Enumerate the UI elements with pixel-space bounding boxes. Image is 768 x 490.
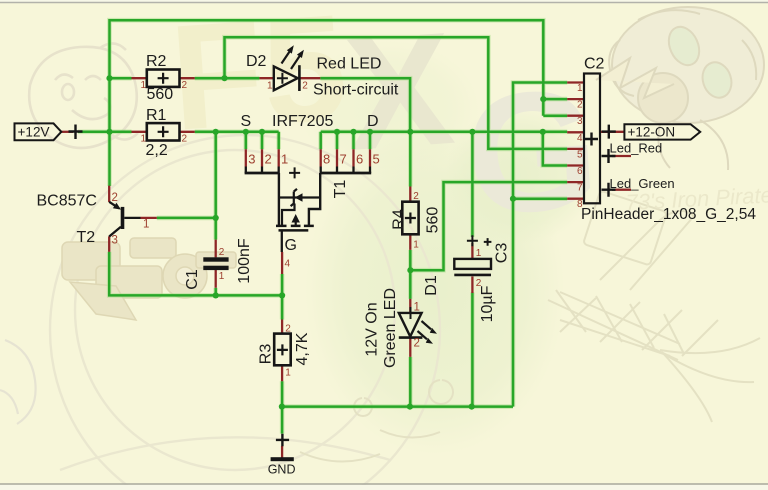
- wire ground bus: [282, 405, 513, 408]
- svg-text:4: 4: [577, 133, 583, 144]
- svg-text:2: 2: [413, 191, 419, 202]
- svg-text:2,2: 2,2: [146, 142, 168, 159]
- pin R3 stubs: [281, 320, 283, 382]
- svg-text:D: D: [367, 113, 379, 130]
- pin Led_Red stub: [612, 155, 631, 157]
- node R4 top junction: [407, 129, 413, 135]
- label Led_Green anchor cross: [602, 183, 616, 197]
- svg-text:GND: GND: [268, 463, 296, 477]
- wire R4 top to D rail: [409, 132, 412, 187]
- svg-text:D1: D1: [423, 275, 440, 296]
- svg-text:100nF: 100nF: [236, 238, 253, 284]
- node C2 pin6 junction: [540, 129, 546, 135]
- wire D2 cathode to D rail: [320, 78, 410, 132]
- LED D2: [274, 45, 304, 91]
- wire R2 row left: [110, 77, 132, 80]
- connector C2 pin header: [584, 74, 600, 204]
- node T1 pin7 junction: [334, 129, 340, 135]
- svg-text:2: 2: [182, 80, 188, 91]
- svg-text:6: 6: [356, 152, 363, 167]
- svg-text:C3: C3: [493, 243, 510, 264]
- capacitor C1: [203, 257, 228, 270]
- svg-text:1: 1: [140, 134, 146, 145]
- node T1 pin3 junction: [243, 129, 249, 135]
- pin R1 stubs: [132, 131, 195, 133]
- node T1 pin6 junction: [350, 129, 356, 135]
- svg-text:1: 1: [476, 248, 482, 259]
- label Led_Red anchor cross: [602, 149, 616, 163]
- node D1 bottom junction: [407, 404, 413, 410]
- top-right monkey face: [596, 7, 764, 170]
- LED D1: [399, 307, 437, 344]
- svg-text:12V On: 12V On: [364, 302, 381, 356]
- wire gate node to R3: [281, 274, 284, 320]
- svg-text:2: 2: [112, 192, 118, 204]
- svg-text:7: 7: [577, 183, 583, 194]
- wire gate row horizontal: [109, 252, 282, 296]
- pin T1 source stubs: [246, 149, 279, 166]
- svg-text:Red LED: Red LED: [317, 56, 382, 73]
- pin R2 stubs: [132, 77, 195, 79]
- svg-text:1: 1: [219, 271, 225, 282]
- svg-text:BC857C: BC857C: [37, 193, 97, 210]
- wire D1 cathode to bus: [409, 357, 412, 407]
- node R3 top junction: [279, 292, 285, 298]
- bottom-right airship sketch: [300, 191, 760, 462]
- pin +12V flag stub: [61, 131, 73, 133]
- node C2 pin8 junction: [510, 196, 516, 202]
- svg-text:S: S: [241, 113, 252, 130]
- svg-text:4,7K: 4,7K: [294, 332, 311, 365]
- pin C3 stubs: [471, 243, 473, 293]
- svg-text:5: 5: [373, 152, 380, 167]
- pin Led_Green stub: [612, 189, 631, 191]
- node R2 right junction: [221, 75, 227, 81]
- svg-text:560: 560: [147, 86, 174, 103]
- wire pin8 branch: [513, 197, 567, 200]
- pin C1 stubs: [215, 240, 217, 288]
- pin +12-ON flag stub: [600, 131, 625, 133]
- node C3 top junction: [469, 129, 475, 135]
- svg-text:4: 4: [285, 259, 291, 270]
- svg-text:2: 2: [577, 100, 583, 111]
- svg-text:10µF: 10µF: [479, 285, 496, 322]
- pin T2 base stub: [141, 217, 157, 219]
- svg-text:2: 2: [285, 324, 291, 335]
- wire T2 base to C1 column: [157, 217, 216, 220]
- pin R4 stubs: [409, 187, 411, 250]
- svg-text:7: 7: [340, 152, 347, 167]
- resistor R1: [147, 123, 180, 140]
- node T1 pin5 junction: [367, 129, 373, 135]
- pin T2 collector stub: [108, 236, 110, 252]
- svg-text:2: 2: [476, 278, 482, 289]
- wire top horizontal +12V net: [110, 20, 544, 186]
- wire pin3 branch: [543, 114, 567, 117]
- pin T1 drain stubs: [321, 149, 370, 166]
- svg-text:2: 2: [182, 134, 188, 145]
- top-left sketch faces: [29, 43, 138, 148]
- svg-text:1: 1: [267, 81, 273, 92]
- svg-text:1: 1: [577, 83, 583, 94]
- svg-text:PinHeader_1x08_G_2,54: PinHeader_1x08_G_2,54: [581, 206, 756, 223]
- wire C1 bottom: [214, 288, 217, 296]
- node C3 bottom junction: [469, 404, 475, 410]
- wire R2 node to C2 pin5: [225, 37, 568, 149]
- wire D rail T1 pin8 to C2 pin4: [321, 131, 568, 134]
- pin GND stub: [281, 446, 283, 458]
- svg-text:1: 1: [143, 219, 149, 231]
- +12V input flag: [15, 123, 62, 140]
- svg-text:2: 2: [265, 152, 272, 167]
- wire C3 top to D rail: [471, 132, 474, 237]
- svg-text:+12-ON: +12-ON: [628, 125, 676, 140]
- svg-text:T2: T2: [77, 229, 96, 246]
- svg-text:T1: T1: [332, 180, 349, 199]
- wire T1 drain pin stubs: [321, 132, 370, 149]
- svg-text:+12V: +12V: [18, 125, 50, 140]
- node +12V rail junction: [106, 129, 112, 135]
- svg-text:2: 2: [302, 81, 308, 92]
- big ghost letters: [166, 0, 605, 252]
- node +12V anchor cross: [69, 125, 83, 140]
- resistor R2: [147, 70, 180, 87]
- svg-text:6: 6: [577, 166, 583, 177]
- resistor R4: [402, 202, 418, 235]
- svg-text:1: 1: [281, 152, 288, 167]
- node R4 D1 junction: [407, 267, 413, 273]
- svg-text:R1: R1: [146, 107, 167, 124]
- wire S rail R1 to T1 pin1: [195, 131, 279, 134]
- svg-text:R2: R2: [146, 53, 167, 70]
- svg-text:R3: R3: [258, 344, 275, 365]
- svg-text:R4: R4: [391, 209, 408, 230]
- wire C1 column top: [214, 132, 217, 240]
- resistor R3: [274, 334, 291, 366]
- wire R3 bottom to bus: [281, 381, 284, 433]
- svg-text:8: 8: [577, 199, 583, 210]
- svg-text:8: 8: [323, 152, 330, 167]
- svg-text:Led_Red: Led_Red: [610, 141, 663, 156]
- node C1 bottom junction: [213, 292, 219, 298]
- wire T1 source pin stubs: [246, 132, 279, 149]
- node R1 right junction: [213, 129, 219, 135]
- wire R4 bottom to D1: [409, 250, 412, 299]
- node T2 base junction: [213, 215, 219, 221]
- wire pin6 branch from D rail: [543, 132, 567, 166]
- svg-text:560: 560: [425, 207, 442, 234]
- svg-text:3: 3: [577, 116, 583, 127]
- svg-text:3: 3: [248, 152, 255, 167]
- svg-text:IRF7205: IRF7205: [272, 113, 333, 130]
- node R3 bottom junction: [279, 404, 285, 410]
- svg-text:1: 1: [414, 302, 420, 314]
- svg-text:Short-circuit: Short-circuit: [313, 82, 399, 99]
- wire GND net C2 pin1 down to bus: [513, 83, 567, 407]
- pin D1 stubs: [409, 299, 411, 357]
- ground GND: [271, 434, 294, 461]
- wire R2 to D2: [195, 77, 260, 80]
- green tint blobs: [305, 125, 565, 455]
- svg-text:Green LED: Green LED: [382, 288, 399, 368]
- pin T1 gate stub: [281, 252, 283, 274]
- node T1 pin2 junction: [259, 129, 265, 135]
- svg-text:1: 1: [140, 80, 146, 91]
- big faint arcs: [50, 135, 440, 490]
- svg-text:1: 1: [285, 368, 291, 379]
- wire C3 bottom to bus: [471, 293, 474, 407]
- node C2 pin2 junction: [540, 96, 546, 102]
- svg-text:2: 2: [414, 338, 420, 350]
- svg-text:Led_Green: Led_Green: [610, 176, 675, 191]
- pin C2 stubs: [567, 83, 584, 199]
- svg-text:C1: C1: [184, 269, 201, 290]
- svg-text:3: 3: [112, 235, 118, 247]
- svg-text:C2: C2: [584, 56, 605, 73]
- left edge gray blob: [0, 340, 36, 424]
- svg-text:1: 1: [413, 240, 419, 251]
- svg-text:D2: D2: [246, 53, 267, 70]
- svg-text:2: 2: [219, 247, 225, 258]
- wire pin2 branch: [543, 98, 567, 101]
- mid-left tan machine: [62, 238, 236, 320]
- capacitor C3: [454, 235, 491, 275]
- pin D2 stubs: [259, 77, 320, 79]
- svg-text:G: G: [285, 237, 297, 254]
- svg-text:5: 5: [577, 149, 583, 160]
- +12-ON output flag: [602, 124, 700, 139]
- transistor T1 IRF7205: [245, 167, 372, 253]
- node R2 left junction: [106, 75, 112, 81]
- wire Led_Green net pin7 to R4 bottom: [410, 182, 567, 270]
- transistor T2 BC857C: [109, 202, 140, 237]
- pin T2 emitter stub: [108, 186, 110, 202]
- wire +12V rail left of R1: [78, 131, 132, 134]
